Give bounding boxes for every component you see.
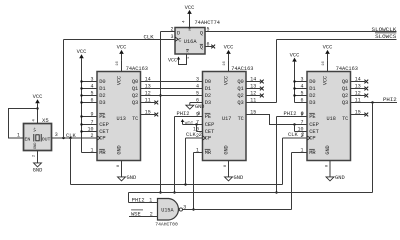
svg-text:CLK: CLK: [66, 133, 76, 139]
svg-text:Q3: Q3: [132, 100, 138, 106]
wire U18 CEP to CET tie: [294, 125, 296, 132]
U18 clock input triangle on CP pin: [307, 136, 310, 140]
wire VCC bus vertical: [81, 58, 83, 152]
svg-text:Q: Q: [200, 30, 203, 36]
wire U17 CP tap vertical: [185, 138, 187, 185]
svg-text:EN: EN: [25, 136, 31, 142]
svg-text:CEP: CEP: [309, 122, 319, 128]
U18 Q0 stub: [351, 81, 366, 83]
svg-text:VCC: VCC: [117, 45, 127, 51]
svg-text:VCC: VCC: [168, 58, 177, 64]
U13 VCC symbol above U13: [121, 54, 123, 61]
U15A output bubble: [179, 208, 182, 211]
junction dot PHI2 at line B: [159, 191, 161, 193]
no-connect X on U17 Q2: [260, 94, 264, 98]
wire X5 OUT to U13 CP (CLK): [52, 137, 98, 139]
oscillator X5 body: [24, 124, 52, 151]
svg-text:MR: MR: [205, 150, 212, 156]
svg-text:Q3: Q3: [237, 100, 243, 106]
svg-text:S: S: [188, 29, 190, 33]
svg-text:GND: GND: [234, 175, 244, 181]
svg-text:MR: MR: [309, 150, 316, 156]
U18 ground symbol: [326, 177, 334, 181]
U13 Q3 stub: [141, 102, 156, 104]
svg-text:VCC: VCC: [77, 49, 87, 55]
svg-text:Q2: Q2: [342, 93, 348, 99]
svg-text:CET: CET: [309, 129, 319, 135]
U17 Q1 stub: [246, 88, 261, 90]
wire U17 MR stub: [194, 152, 203, 154]
svg-text:WSE: WSE: [131, 212, 141, 218]
svg-text:V+: V+: [34, 127, 38, 132]
VCC symbol above U18 D bus: [294, 62, 296, 67]
svg-text:Q: Q: [200, 45, 203, 51]
svg-text:1: 1: [149, 197, 152, 203]
wire U18 MR stub: [292, 152, 308, 154]
no-connect X on U18 Q0: [364, 80, 368, 84]
wire U13 Q2 to U17 D2: [141, 95, 203, 97]
svg-text:D3: D3: [205, 100, 211, 106]
svg-text:SLOWCLK: SLOWCLK: [372, 26, 397, 33]
U16A clock triangle: [175, 37, 178, 41]
svg-text:VCC: VCC: [116, 76, 122, 85]
svg-text:2: 2: [300, 133, 303, 139]
svg-text:U17: U17: [222, 116, 231, 122]
wire U18 D bus to D3: [295, 102, 308, 104]
svg-text:D2: D2: [205, 93, 211, 99]
svg-text:D2: D2: [99, 93, 105, 99]
wire U18 CP stub: [283, 137, 308, 139]
wire CLK bottom run (line A): [71, 184, 283, 186]
X5 crystal symbol: [34, 134, 41, 142]
junction dot U18 CEP/CET tie: [293, 123, 295, 125]
U13 GND pin 8 wire: [121, 161, 123, 177]
junction dot U18 Q3 PHI2 branch: [371, 101, 373, 103]
wire PHI2 to U18 PE: [277, 116, 308, 118]
wire PHI2 feedback vertical (D to line B): [160, 32, 162, 193]
svg-text:GND: GND: [195, 104, 204, 110]
svg-text:U18: U18: [327, 116, 336, 122]
wire PHI2 vertical right: [372, 103, 374, 193]
no-connect X on U18 TC: [364, 113, 368, 117]
U17 Q2 stub: [246, 95, 261, 97]
nand gate U15A body: [158, 199, 179, 221]
svg-text:7: 7: [300, 119, 303, 125]
svg-text:TC: TC: [342, 116, 348, 122]
junction dot U17 MR at NAND output: [192, 208, 194, 210]
junction dot CLK to bottom branch: [69, 137, 71, 139]
U18 GND pin 8 wire: [329, 161, 331, 177]
wire U17 CEP to CET tie: [196, 125, 198, 132]
no-connect X on U18 Q2: [364, 94, 368, 98]
VCC symbol at U16A reset: [178, 60, 180, 62]
svg-text:U16A: U16A: [184, 39, 198, 45]
wire CLK top run to U16A: [64, 39, 176, 41]
U13 clock input triangle on CP pin: [97, 136, 100, 140]
svg-text:Q0: Q0: [237, 79, 243, 85]
svg-text:Q1: Q1: [342, 86, 348, 92]
svg-text:3: 3: [55, 132, 58, 138]
wire U16A Q output to SLOWCLK: [205, 31, 397, 33]
svg-text:GND: GND: [335, 175, 345, 181]
svg-text:74AC163: 74AC163: [126, 66, 148, 72]
svg-text:CEP: CEP: [99, 122, 109, 128]
svg-text:2: 2: [199, 132, 202, 138]
svg-text:CEP: CEP: [205, 122, 215, 128]
junction dot CLK bottom at U17 CP tap: [184, 183, 186, 185]
svg-text:VCC: VCC: [223, 76, 229, 85]
svg-text:D3: D3: [309, 100, 315, 106]
flip-flop U16A 74AHCT74 body: [175, 28, 205, 55]
wire U16A D input: [161, 31, 176, 33]
no-connect X on U18 Q1: [364, 87, 368, 91]
U13 TC stub: [141, 114, 156, 116]
svg-text:PE: PE: [205, 114, 211, 120]
svg-text:Q3: Q3: [342, 100, 348, 106]
svg-text:CLK: CLK: [144, 33, 155, 40]
svg-text:SLOWCS: SLOWCS: [375, 33, 397, 40]
ground symbol at U17 D3: [189, 103, 191, 106]
svg-text:CET: CET: [205, 129, 215, 135]
wire U17 CP stub: [186, 137, 203, 139]
counter U17 74AC163 body: [203, 72, 247, 161]
wire tie to U18 CET: [295, 131, 308, 133]
wire CLK bottom up to U18 CP: [282, 138, 284, 185]
svg-text:CP: CP: [99, 136, 105, 142]
U18 Q2 stub: [351, 95, 366, 97]
svg-text:Q1: Q1: [132, 86, 138, 92]
svg-text:MR: MR: [99, 150, 106, 156]
svg-text:VCC: VCC: [290, 52, 300, 58]
no-connect X on U17 Q0: [260, 80, 264, 84]
wire SLOWCS run: [277, 39, 397, 41]
svg-text:74AHCT74: 74AHCT74: [195, 20, 220, 26]
svg-text:VCC: VCC: [323, 45, 333, 51]
wire X5 EN enable loop: [9, 109, 38, 139]
svg-text:GND: GND: [34, 143, 38, 149]
junction dot X5 VCC: [36, 107, 38, 109]
svg-text:CP: CP: [309, 136, 315, 142]
svg-text:CLK: CLK: [186, 132, 196, 138]
svg-text:D1: D1: [99, 86, 105, 92]
wire PHI2 to U17 PE: [175, 116, 203, 118]
svg-text:16: 16: [322, 61, 326, 66]
svg-text:X5: X5: [42, 117, 49, 124]
ground symbol below X5: [34, 163, 42, 167]
counter U13 74AC163 body: [97, 72, 141, 161]
no-connect X on U13 Q3: [154, 101, 158, 105]
wire U13 Q0 to U17 D0: [141, 81, 203, 83]
junction dots on VCC bus: [80, 80, 82, 82]
U17 GND pin 8 wire: [228, 161, 230, 177]
wire U18 D bus vertical: [294, 66, 296, 102]
svg-text:GND: GND: [127, 175, 137, 181]
counter U18 74AC163 body: [307, 72, 351, 161]
U17 clock input triangle on CP pin: [203, 136, 206, 140]
svg-text:Q2: Q2: [132, 93, 138, 99]
svg-text:PE: PE: [309, 114, 315, 120]
VCC symbol above U16A: [189, 14, 191, 19]
no-connect X on U16A Qbar: [211, 45, 215, 49]
wire WSE stub to U15A pin 2: [129, 216, 158, 218]
U13 VCC pin 16 wire: [121, 61, 123, 72]
junction dot PHI2 at U13 Q2: [159, 94, 161, 96]
svg-text:74AC163: 74AC163: [231, 66, 253, 72]
wire U18 PE vertical to line B: [276, 117, 278, 193]
svg-text:D2: D2: [309, 93, 315, 99]
wire U17 Q3 to SLOWCS riser: [246, 102, 277, 104]
wire U13 Q1 to U17 D1: [141, 88, 203, 90]
junction dot U17 PE at line B: [173, 191, 175, 193]
wire U17 PE vertical to line B: [174, 117, 176, 193]
U16A pin 1 reset wire loop: [179, 54, 187, 65]
wire U15A output (MR reset net): [183, 209, 292, 211]
svg-text:2: 2: [196, 133, 199, 139]
wire PHI2 stub to U15A pin 1: [129, 202, 158, 204]
junction dots on U18 D bus: [293, 80, 295, 82]
wire tie to U17 CET: [197, 131, 203, 133]
svg-text:VCC: VCC: [322, 76, 328, 85]
U17 Q0 stub: [246, 81, 261, 83]
junction dot U18 PE at line B: [275, 191, 277, 193]
svg-text:D3: D3: [99, 100, 105, 106]
U16A pin 4 set wire to VCC: [189, 14, 191, 28]
svg-text:Q1: Q1: [237, 86, 243, 92]
svg-text:16: 16: [116, 61, 120, 66]
svg-text:74AC163: 74AC163: [336, 66, 358, 72]
svg-text:VCC: VCC: [185, 121, 194, 127]
wire X5 pin4 to VCC: [37, 108, 39, 123]
U13 ground symbol: [118, 177, 126, 181]
wire line B drop to U15A pin 1: [128, 193, 130, 203]
svg-text:Q2: Q2: [237, 93, 243, 99]
svg-text:PE: PE: [99, 114, 105, 120]
svg-text:U13: U13: [117, 116, 126, 122]
svg-text:GND: GND: [33, 168, 43, 174]
svg-text:D0: D0: [205, 79, 211, 85]
svg-text:D: D: [177, 30, 180, 36]
svg-text:C: C: [178, 38, 181, 44]
svg-text:GND: GND: [325, 145, 331, 154]
no-connect X on U17 Q1: [260, 87, 264, 91]
junction dot CLK to flipflop branch: [62, 137, 64, 139]
svg-text:U15A: U15A: [161, 208, 174, 214]
wire U17 TC cascade to U18 CEP/CET: [246, 115, 307, 125]
wire CLK bottom vertical from osc output: [70, 138, 72, 185]
svg-text:CP: CP: [205, 136, 211, 142]
wire VCC to U17 CEP: [183, 124, 203, 126]
U18 TC stub: [351, 114, 366, 116]
svg-text:CET: CET: [99, 129, 109, 135]
svg-text:GND: GND: [116, 145, 122, 154]
U17 VCC symbol above U17: [228, 54, 230, 61]
svg-text:3: 3: [170, 34, 173, 40]
VCC symbol above left bus: [81, 58, 83, 62]
VCC symbol at U17 CEP: [182, 122, 184, 124]
wire U18 Q3 to PHI2 label: [351, 102, 398, 104]
no-connect X on U13 TC: [154, 113, 158, 117]
U18 Q1 stub: [351, 88, 366, 90]
svg-text:CLK: CLK: [288, 132, 298, 138]
svg-text:D1: D1: [205, 86, 211, 92]
svg-text:D1: D1: [309, 86, 315, 92]
junction dot U17 CEP/CET tie: [195, 123, 197, 125]
U18 VCC pin 16 wire: [327, 61, 329, 72]
wire CLK up to top run: [63, 40, 65, 139]
svg-text:TC: TC: [238, 116, 244, 122]
X5 GND pin 2 wire: [37, 151, 39, 163]
wire bus to U13 MR pin 1: [82, 152, 98, 154]
wires U18 D bus stubs: [295, 81, 308, 83]
svg-text:Q0: Q0: [342, 79, 348, 85]
svg-text:PHI2: PHI2: [383, 96, 397, 103]
svg-text:OUT: OUT: [42, 136, 51, 142]
wire U17 MR vertical to NAND output: [193, 153, 195, 210]
svg-text:16: 16: [223, 61, 227, 66]
wire PHI2 bottom run (line B): [129, 192, 373, 194]
svg-text:PHI2: PHI2: [132, 197, 145, 203]
svg-text:GND: GND: [223, 145, 229, 154]
wire U17 D3 to ground: [190, 102, 203, 104]
U17 ground symbol: [225, 177, 233, 181]
wires bus stubs to U13 left pins: [82, 81, 98, 83]
VCC symbol above X5: [37, 103, 39, 109]
svg-text:D0: D0: [309, 79, 315, 85]
U17 VCC pin 16 wire: [228, 61, 230, 72]
U18 VCC symbol above U18: [327, 54, 329, 61]
svg-text:74AHCT00: 74AHCT00: [155, 221, 178, 227]
svg-text:10: 10: [297, 126, 303, 132]
wire SLOWCS vertical: [276, 40, 278, 103]
svg-text:VCC: VCC: [33, 94, 43, 100]
svg-text:VCC: VCC: [224, 45, 234, 51]
svg-text:D0: D0: [99, 79, 105, 85]
wire U18 MR vertical to NAND output: [291, 153, 293, 210]
svg-text:TC: TC: [132, 116, 138, 122]
svg-text:2: 2: [150, 211, 153, 217]
svg-text:VCC: VCC: [185, 5, 195, 11]
U16A Qbar stub: [205, 46, 212, 48]
svg-text:Q0: Q0: [132, 79, 138, 85]
